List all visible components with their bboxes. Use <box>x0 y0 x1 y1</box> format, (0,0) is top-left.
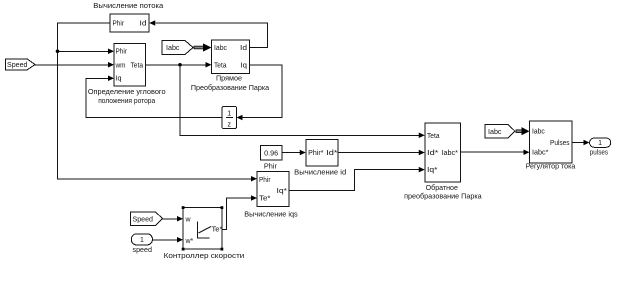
junction dot at Phir branch <box>56 49 60 53</box>
svg-text:Te*: Te* <box>259 195 271 202</box>
wire 1/z output -> U2 Iq input <box>86 76 222 118</box>
svg-text:Id: Id <box>140 20 147 27</box>
svg-text:1: 1 <box>140 237 144 244</box>
svg-text:Iabc: Iabc <box>532 129 545 136</box>
block U3 Прямое Преобразование Парка (direct Park transform) <box>191 40 270 92</box>
wire C1 0.96 -> U5 Phir* input <box>282 150 306 156</box>
wire U5 Id* output -> U8 Id* input <box>338 150 425 156</box>
svg-text:1: 1 <box>598 140 602 147</box>
svg-text:Phir: Phir <box>116 49 128 56</box>
svg-text:Iabc*: Iabc* <box>442 150 459 157</box>
svg-text:wm: wm <box>115 62 126 69</box>
junction dot at Teta branch <box>178 63 182 67</box>
block U8 Обратное преобразование Парка (inverse Park transform) <box>404 123 482 201</box>
wire U1 Phir output -> U6 Phir input (long left feedback) <box>58 23 258 182</box>
block U5 Вычисление id <box>294 139 346 176</box>
svg-text:Iabc: Iabc <box>166 45 180 52</box>
svg-text:Прямое: Прямое <box>216 73 242 82</box>
svg-text:0.96: 0.96 <box>264 150 278 157</box>
svg-text:преобразование Парка: преобразование Парка <box>404 192 482 201</box>
block U4 unit delay 1/z <box>222 107 237 129</box>
block U7 Контроллер скорости (speed controller, selected with handles) <box>164 206 245 260</box>
svg-text:Te*: Te* <box>212 226 223 233</box>
port tag Speed (goto tag, upper left) <box>6 59 36 70</box>
svg-text:Phir*: Phir* <box>308 150 324 157</box>
wire U9 Pulses output -> outport pulses <box>572 140 590 146</box>
wire U8 Iabc* output -> U9 Iabc* input <box>460 149 529 155</box>
svg-text:Iabc: Iabc <box>214 45 227 52</box>
svg-text:Speed: Speed <box>133 216 154 223</box>
svg-text:Id: Id <box>240 45 247 52</box>
block U6 Вычисление iqs <box>244 171 298 218</box>
svg-text:1: 1 <box>227 110 231 117</box>
svg-text:Iabc*: Iabc* <box>532 150 549 157</box>
svg-text:Iq: Iq <box>241 62 248 69</box>
svg-text:Iq*: Iq* <box>277 188 288 195</box>
block U2 Определение углового положения ротора (rotor angle) <box>88 44 166 106</box>
svg-text:Вычисление потока: Вычисление потока <box>93 1 164 10</box>
block U1 Вычисление потока (flux calculation, mirrored: output Phir left, input Id right) <box>93 1 164 32</box>
wire inport 1 -> U7 w* input <box>153 237 184 243</box>
svg-text:Вычисление id: Вычисление id <box>294 168 346 177</box>
wire U7 Te* output -> U6 Te* input <box>222 195 257 229</box>
port tag Iabc 2 (from tag, right) <box>485 125 515 139</box>
bus wire Iabc tag to U3 <box>194 43 212 51</box>
svg-text:Pulses: Pulses <box>550 140 570 147</box>
svg-text:Phir: Phir <box>113 20 125 27</box>
svg-text:Iq: Iq <box>116 76 122 83</box>
port tag Iabc (from tag, top middle) <box>162 41 193 55</box>
block C1 constant 0.96 (Phir reference) <box>261 146 283 171</box>
svg-text:speed: speed <box>133 245 153 254</box>
svg-text:Phir: Phir <box>259 177 271 184</box>
svg-text:z: z <box>227 122 231 129</box>
svg-text:Id*: Id* <box>326 150 338 157</box>
svg-text:Регулятор тока: Регулятор тока <box>526 162 576 171</box>
block U9 Регулятор тока (current regulator) <box>526 121 576 171</box>
svg-text:Teta: Teta <box>427 133 440 140</box>
port tag Speed 2 (bottom) <box>131 212 163 226</box>
outport 1 pulses (oval) <box>590 138 611 156</box>
svg-text:Teta: Teta <box>131 62 144 69</box>
wire branch to U2 Phir input <box>58 49 115 55</box>
svg-text:Iabc: Iabc <box>488 129 502 136</box>
wire U6 Iq* output -> U8 Iq* input <box>289 167 425 191</box>
svg-text:pulses: pulses <box>590 147 608 156</box>
inport 1 speed (oval) <box>131 234 152 254</box>
wire U3 Id output feedback -> U1 Id input <box>149 20 267 47</box>
svg-text:Вычисление iqs: Вычисление iqs <box>244 210 298 219</box>
bus wire Iabc2 tag to U9 <box>516 127 530 135</box>
wire Speed tag 2 -> U7 w input <box>163 216 184 222</box>
svg-text:положения ротора: положения ротора <box>98 96 156 105</box>
wire U2 Teta output -> U3 Teta input <box>146 62 212 68</box>
svg-text:Определение углового: Определение углового <box>88 87 166 96</box>
wire U3 Iq output -> 1/z input <box>237 65 282 121</box>
svg-text:Teta: Teta <box>214 62 227 69</box>
wire Speed tag -> U2 wm <box>35 62 114 68</box>
svg-text:w: w <box>185 216 192 223</box>
svg-text:Iq*: Iq* <box>427 167 438 174</box>
svg-text:Phir: Phir <box>264 161 277 170</box>
svg-text:Id*: Id* <box>427 150 439 157</box>
svg-text:Контроллер скорости: Контроллер скорости <box>164 251 245 260</box>
wire branch Teta -> U8 Teta input <box>180 65 425 138</box>
svg-text:Speed: Speed <box>7 62 28 69</box>
svg-text:Преобразование Парка: Преобразование Парка <box>191 83 270 92</box>
svg-text:w*: w* <box>185 238 194 245</box>
